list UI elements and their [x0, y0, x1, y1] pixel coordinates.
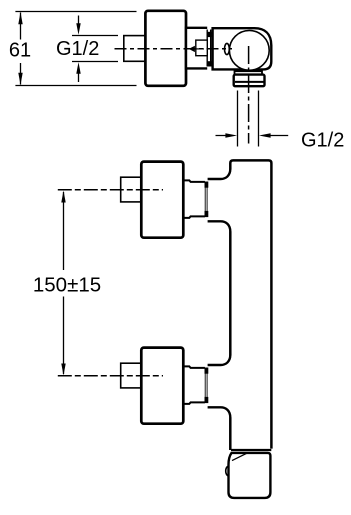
svg-text:150±15: 150±15	[33, 274, 101, 297]
svg-text:61: 61	[9, 40, 31, 62]
svg-text:G1/2: G1/2	[56, 38, 99, 60]
svg-text:G1/2: G1/2	[301, 130, 344, 152]
